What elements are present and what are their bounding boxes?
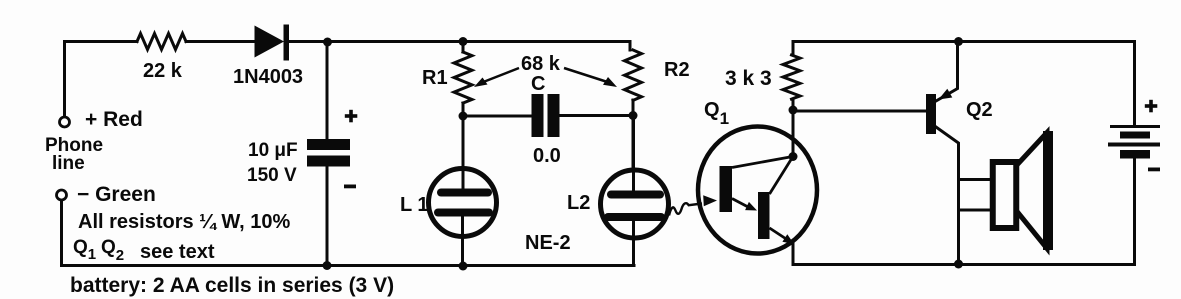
svg-text:1N4003: 1N4003 [233, 66, 303, 88]
svg-text:line: line [52, 153, 85, 174]
svg-text:NE-2: NE-2 [525, 232, 571, 254]
svg-text:68 k: 68 k [521, 53, 561, 75]
svg-text:L2: L2 [567, 192, 590, 214]
svg-text:+ Red: + Red [85, 108, 143, 131]
svg-text:− Green: − Green [77, 183, 156, 206]
svg-text:22 k: 22 k [143, 60, 183, 82]
svg-text:3 k 3: 3 k 3 [725, 67, 772, 90]
svg-text:L 1: L 1 [400, 194, 429, 216]
svg-text:Q1: Q1 [73, 237, 96, 263]
svg-text:150 V: 150 V [247, 165, 297, 186]
svg-text:0.0: 0.0 [533, 145, 561, 167]
svg-text:R2: R2 [664, 59, 690, 81]
svg-text:Q2: Q2 [966, 99, 993, 121]
svg-text:All resistors ¼ W, 10%: All resistors ¼ W, 10% [78, 211, 291, 233]
svg-text:R1: R1 [422, 67, 448, 89]
svg-text:C: C [531, 73, 545, 95]
svg-text:battery: 2 AA cells in series: battery: 2 AA cells in series (3 V) [70, 274, 394, 297]
svg-text:see text: see text [140, 241, 215, 263]
svg-text:10 μF: 10 μF [248, 140, 298, 161]
svg-text:Q1: Q1 [704, 99, 729, 128]
svg-text:Q2: Q2 [101, 237, 124, 264]
